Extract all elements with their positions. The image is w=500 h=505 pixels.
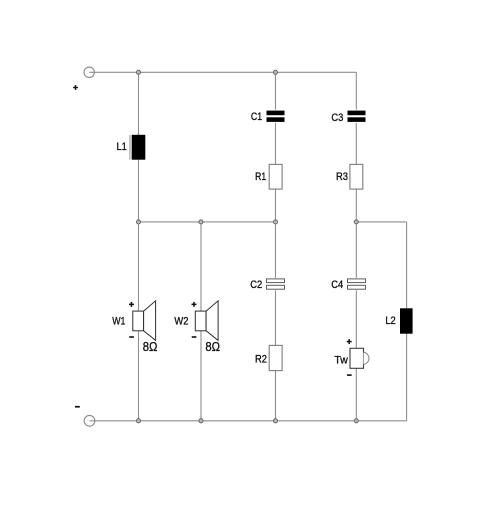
junction mid-R1 — [273, 220, 277, 224]
woofer W1 — [133, 301, 156, 341]
svg-text:C4: C4 — [331, 279, 343, 291]
svg-text:C1: C1 — [251, 111, 263, 123]
junction bottom-W2 — [199, 419, 203, 423]
junction bottom-W1 — [136, 419, 140, 423]
wire C1/R1 vertical — [275, 72, 277, 421]
label + (W2) — [192, 302, 197, 307]
terminal input - — [84, 415, 95, 426]
capacitor C4 — [346, 278, 366, 290]
woofer W2 — [195, 301, 218, 341]
junction mid-L1 — [136, 220, 140, 224]
junction bottom-Tw — [354, 419, 358, 423]
junction top-left — [136, 70, 140, 74]
resistor R1 — [269, 164, 282, 189]
resistor R2 — [269, 345, 282, 370]
label - (input) — [75, 406, 80, 408]
wire W2 vertical — [200, 222, 202, 421]
wire left vertical (L1 branch) — [138, 72, 140, 421]
svg-text:W1: W1 — [112, 316, 126, 328]
label - (W2) — [192, 336, 197, 338]
tweeter Tw — [350, 348, 369, 368]
junction mid-W2 — [199, 220, 203, 224]
wire middle right horizontal — [356, 221, 406, 223]
junction bottom-R2 — [273, 419, 277, 423]
resistor R3 — [350, 164, 363, 189]
wire middle horizontal — [139, 221, 276, 223]
svg-text:R2: R2 — [255, 354, 267, 366]
svg-text:L2: L2 — [385, 316, 396, 328]
svg-text:8Ω: 8Ω — [143, 340, 158, 355]
svg-text:W2: W2 — [174, 316, 188, 328]
capacitor C1 — [266, 110, 286, 123]
label + (W1) — [129, 302, 134, 307]
label + (Tw) — [347, 339, 352, 344]
capacitor C2 — [266, 278, 286, 290]
terminal input + — [84, 67, 94, 77]
svg-text:R1: R1 — [255, 171, 266, 183]
svg-text:R3: R3 — [336, 171, 348, 183]
inductor L1 — [130, 135, 145, 160]
svg-text:Tw: Tw — [334, 354, 348, 366]
capacitor C3 — [346, 110, 366, 123]
label + (input) — [73, 85, 78, 90]
svg-text:L1: L1 — [116, 142, 127, 154]
wire C3/R3 vertical — [355, 72, 357, 421]
junction top-C1 — [273, 70, 277, 74]
svg-text:C2: C2 — [250, 279, 262, 291]
svg-text:8Ω: 8Ω — [205, 340, 220, 355]
wire top horizontal — [89, 71, 356, 73]
svg-text:C3: C3 — [331, 112, 343, 124]
label - (W1) — [129, 336, 134, 338]
wire bottom horizontal — [90, 420, 407, 422]
junction mid-R3 — [354, 220, 358, 224]
wire right vertical (L2 branch) — [406, 222, 408, 421]
label - (Tw) — [347, 374, 352, 376]
inductor L2 — [400, 308, 413, 333]
